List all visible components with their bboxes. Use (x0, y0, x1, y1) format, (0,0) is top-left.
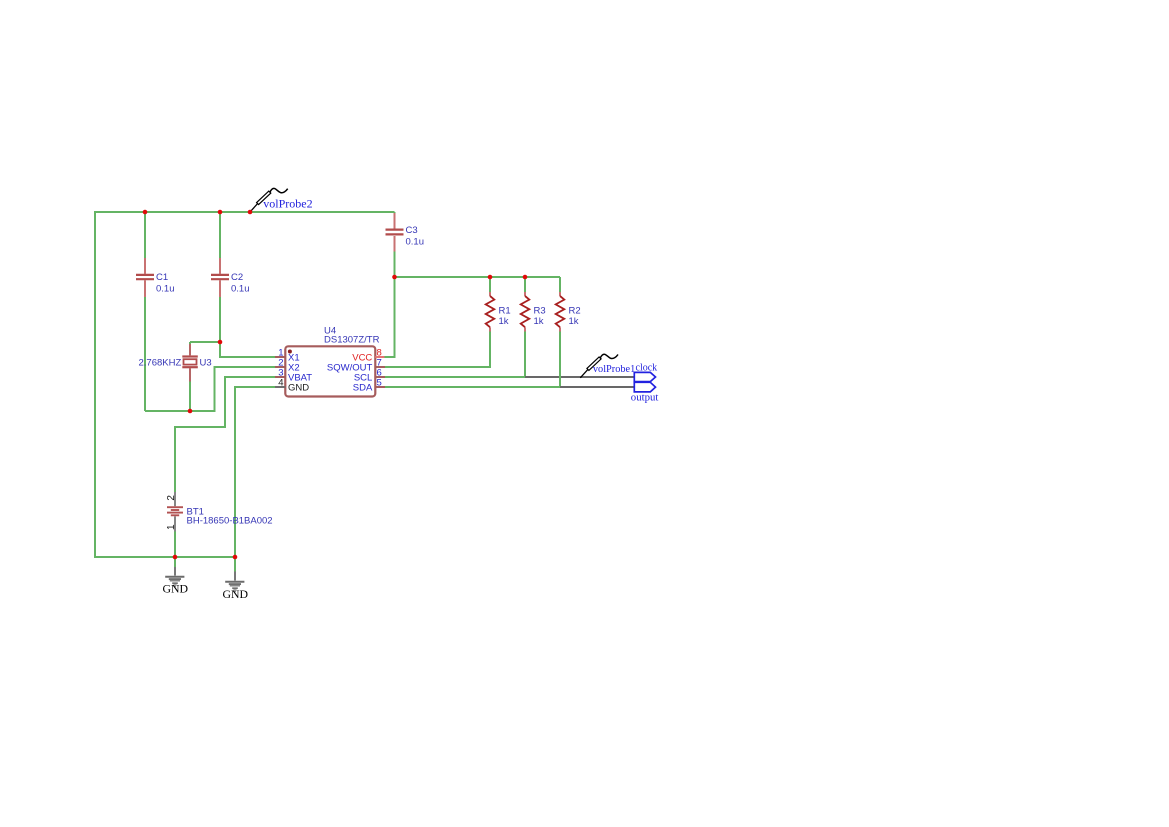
wire VCC to pin8 (385, 277, 395, 357)
wire battery bottom (174, 532, 176, 558)
svg-text:output: output (631, 392, 659, 404)
svg-text:0.1u: 0.1u (231, 284, 250, 295)
svg-text:C3: C3 (406, 225, 418, 236)
wire R1 top stub (489, 277, 491, 292)
pin 8 stub (375, 356, 384, 358)
port output (631, 382, 659, 403)
capacitor C3 (386, 213, 425, 252)
capacitor C2 (211, 258, 250, 297)
wire crystal bottom stub (189, 382, 191, 412)
wire C1 top stub (144, 212, 146, 258)
svg-text:5: 5 (377, 378, 382, 389)
probe volProbe1 (580, 354, 618, 378)
svg-text:2.768KHZ: 2.768KHZ (139, 358, 182, 369)
svg-text:GND: GND (163, 582, 189, 596)
svg-text:0.1u: 0.1u (406, 237, 425, 248)
resistor R3 (521, 292, 546, 332)
port clock (634, 363, 657, 382)
svg-text:DS1307Z/TR: DS1307Z/TR (324, 335, 380, 346)
junction (235,557) (233, 555, 238, 560)
junction (250,211) (248, 210, 253, 215)
crystal U3 (139, 344, 212, 382)
junction (220,211) (218, 210, 223, 215)
wire top bus / left drop / bottom bus (95, 212, 395, 557)
pin 5 stub (375, 386, 385, 388)
wire C2 bottom (219, 297, 221, 342)
junction (175,557) (173, 555, 178, 560)
svg-text:GND: GND (288, 383, 309, 394)
svg-text:volProbe2: volProbe2 (263, 197, 312, 211)
probe volProbe2 (250, 188, 313, 212)
wire VBAT net (175, 377, 275, 492)
wire crystal top stub (189, 342, 191, 344)
wire GND pin net (235, 387, 275, 557)
junction (220,342) (218, 340, 223, 345)
wire C3 bottom (394, 252, 396, 278)
resistor R2 (556, 292, 581, 332)
junction (145,211) (143, 210, 148, 215)
pin 1 stub (275, 356, 285, 358)
svg-text:1k: 1k (569, 316, 579, 327)
ground symbol right (223, 557, 249, 601)
wire VCC bus (395, 276, 561, 278)
wire X2 net (145, 367, 275, 411)
svg-text:R3: R3 (534, 306, 546, 317)
svg-text:2: 2 (166, 495, 177, 501)
svg-text:C2: C2 (231, 272, 243, 283)
pin 6 stub (375, 376, 385, 378)
svg-text:clock: clock (636, 363, 658, 374)
ground symbol left (163, 557, 189, 596)
wire SDA dark segment (560, 386, 635, 388)
svg-text:R1: R1 (499, 306, 511, 317)
svg-text:0.1u: 0.1u (156, 284, 175, 295)
wire SQW/OUT net (385, 332, 490, 368)
wire SCL dark segment (525, 376, 635, 378)
wire C1 bottom to X2 bus (144, 297, 146, 411)
svg-text:R2: R2 (569, 306, 581, 317)
pin-1 indicator dot (288, 350, 292, 354)
junction (394.5,277) (392, 275, 397, 280)
pin 2 stub (275, 366, 285, 368)
svg-text:U3: U3 (200, 358, 212, 369)
svg-text:C1: C1 (156, 272, 168, 283)
svg-text:volProbe1: volProbe1 (593, 364, 635, 375)
wire C2 top stub (219, 212, 221, 258)
capacitor C1 (136, 258, 175, 297)
battery BT1 (166, 492, 273, 532)
svg-text:4: 4 (278, 378, 283, 389)
resistor R1 (486, 292, 511, 332)
pin 7 stub (375, 366, 385, 368)
svg-text:1: 1 (166, 524, 177, 530)
junction (525,277) (523, 275, 528, 280)
junction (190,411) (188, 409, 193, 414)
wire SCL green segment (385, 332, 525, 378)
svg-text:GND: GND (223, 587, 249, 601)
pin 3 stub (275, 376, 285, 378)
wire C3 top stub (394, 212, 396, 214)
wire X1 net (190, 342, 275, 357)
IC U4 DS1307Z/TR body (285, 346, 375, 396)
svg-text:1k: 1k (534, 316, 544, 327)
pin 4 stub (275, 386, 285, 388)
svg-text:1k: 1k (499, 316, 509, 327)
junction (490,277) (488, 275, 493, 280)
wire R3 top stub (524, 277, 526, 292)
wire SDA green segment (385, 332, 560, 388)
wire R2 top stub (559, 277, 561, 292)
svg-text:SDA: SDA (353, 383, 373, 394)
svg-text:BH-18650-B1BA002: BH-18650-B1BA002 (187, 516, 273, 527)
